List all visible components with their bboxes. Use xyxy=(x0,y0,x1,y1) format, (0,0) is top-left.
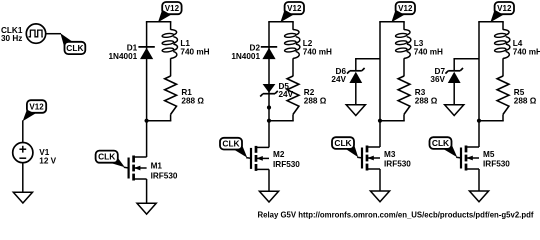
wire xyxy=(355,59,357,71)
wire xyxy=(456,156,461,159)
svg-text:IRF530: IRF530 xyxy=(483,160,510,169)
ground (M5) xyxy=(469,191,488,202)
wire xyxy=(268,120,294,122)
inductor L1 xyxy=(162,30,178,59)
svg-text:IRF530: IRF530 xyxy=(384,160,411,169)
wire xyxy=(379,120,405,122)
label M3 IRF530 xyxy=(384,150,411,169)
ground (D7) xyxy=(445,105,464,116)
zener diode D7 xyxy=(445,68,463,83)
junction xyxy=(477,119,481,123)
inductor L3 xyxy=(395,30,411,59)
ground (M3) xyxy=(370,191,389,202)
wire xyxy=(403,22,405,30)
net label V12 (M2 branch) xyxy=(285,2,304,14)
wire xyxy=(379,21,405,23)
zener diode D5 xyxy=(260,84,278,97)
net flag V12 (M2 branch) xyxy=(280,10,293,22)
voltage source CLK1 (30 Hz clock) xyxy=(26,24,45,43)
net label CLK (gate of M3) xyxy=(332,137,354,149)
resistor R1 xyxy=(165,76,177,114)
label M1 IRF530 xyxy=(151,162,178,181)
junction xyxy=(378,119,382,123)
svg-text:740 mH: 740 mH xyxy=(180,48,209,57)
wire xyxy=(46,33,61,35)
resistor R5 xyxy=(497,76,509,114)
net flag V12 (M1 branch) xyxy=(158,10,171,22)
junction xyxy=(267,105,271,109)
wire xyxy=(379,169,381,192)
wire xyxy=(268,21,294,23)
wire xyxy=(478,120,504,122)
wire xyxy=(146,120,172,122)
svg-text:1N4001: 1N4001 xyxy=(109,52,138,61)
svg-text:CLK: CLK xyxy=(432,138,449,148)
wire xyxy=(292,58,294,76)
svg-text:CLK: CLK xyxy=(222,139,239,149)
wire xyxy=(170,22,172,30)
label V1 12 V xyxy=(39,148,56,165)
svg-text:740 mH: 740 mH xyxy=(513,48,540,57)
label D2 1N4001 xyxy=(231,44,260,61)
wire xyxy=(379,22,381,121)
svg-text:Relay G5V http://omronfs.omron: Relay G5V http://omronfs.omron.com/en_US… xyxy=(258,210,534,219)
svg-text:V12: V12 xyxy=(29,103,44,112)
net label CLK (clock output) xyxy=(65,42,86,54)
svg-text:CLK: CLK xyxy=(334,138,351,148)
label M5 IRF530 xyxy=(483,150,510,169)
junction xyxy=(145,119,149,123)
wire xyxy=(246,157,251,160)
label L2 740 mH xyxy=(303,39,332,56)
resistor R2 xyxy=(287,76,299,114)
net flag CLK (clock output) xyxy=(60,33,72,48)
wire xyxy=(292,114,294,120)
n-channel MOSFET M3 xyxy=(362,146,380,171)
svg-text:IRF530: IRF530 xyxy=(273,160,300,169)
wire xyxy=(478,169,480,192)
net label V12 (M5 branch) xyxy=(495,2,514,14)
wire xyxy=(268,169,270,192)
net flag CLK (gate of M1) xyxy=(109,158,125,168)
wire xyxy=(453,83,455,105)
svg-text:V12: V12 xyxy=(497,4,512,13)
label CLK1 30 Hz xyxy=(1,26,23,43)
wire xyxy=(453,59,455,71)
net label V12 (at V1) xyxy=(27,100,46,113)
svg-text:288 Ω: 288 Ω xyxy=(415,96,438,105)
wire xyxy=(357,156,362,159)
ground (D6) xyxy=(346,105,365,116)
wire xyxy=(403,58,405,76)
label D6 24V xyxy=(331,67,346,84)
svg-text:M3: M3 xyxy=(384,150,396,159)
wire xyxy=(268,22,270,121)
wire xyxy=(146,121,148,157)
wire xyxy=(478,121,480,147)
wire xyxy=(502,22,504,30)
wire xyxy=(146,22,148,121)
svg-text:30 Hz: 30 Hz xyxy=(1,34,22,43)
svg-text:M5: M5 xyxy=(483,150,495,159)
label L3 740 mH xyxy=(414,39,443,56)
resistor R3 xyxy=(398,76,410,114)
n-channel MOSFET M5 xyxy=(461,146,479,171)
net flag CLK (gate of M5) xyxy=(443,144,457,158)
n-channel MOSFET M1 xyxy=(129,156,147,181)
diode D2 xyxy=(261,47,277,59)
svg-text:M1: M1 xyxy=(151,162,163,171)
ground (M1) xyxy=(137,203,156,214)
svg-text:V12: V12 xyxy=(165,4,180,13)
wire xyxy=(124,166,129,169)
ground (V1) xyxy=(13,192,32,203)
net flag V12 (M5 branch) xyxy=(490,10,503,22)
wire xyxy=(502,114,504,120)
wire xyxy=(292,22,294,30)
wire xyxy=(453,58,479,60)
wire xyxy=(379,121,381,147)
label M2 IRF530 xyxy=(273,150,300,169)
svg-text:1N4001: 1N4001 xyxy=(231,52,260,61)
wire xyxy=(478,22,480,121)
inductor L4 xyxy=(494,30,510,59)
diode D1 xyxy=(138,47,154,59)
net flag CLK (gate of M2) xyxy=(233,144,247,157)
label L4 740 mH xyxy=(513,39,540,56)
zener diode D6 xyxy=(347,68,365,83)
label D1 1N4001 xyxy=(109,44,138,61)
wire xyxy=(403,114,405,120)
wire xyxy=(268,121,270,148)
label R1 288 Ω xyxy=(181,88,204,105)
svg-text:740 mH: 740 mH xyxy=(414,48,443,57)
wire xyxy=(170,114,172,120)
svg-text:CLK: CLK xyxy=(66,43,83,53)
net label CLK (gate of M1) xyxy=(96,151,118,163)
wire xyxy=(146,179,148,204)
svg-text:288 Ω: 288 Ω xyxy=(514,96,537,105)
svg-text:740 mH: 740 mH xyxy=(303,48,332,57)
net label V12 (M1 branch) xyxy=(162,2,181,14)
net label CLK (gate of M5) xyxy=(430,137,452,149)
inductor L2 xyxy=(284,30,300,59)
voltage source V1 xyxy=(13,143,33,163)
svg-text:CLK: CLK xyxy=(98,152,115,162)
svg-text:24V: 24V xyxy=(331,75,346,84)
label R5 288 Ω xyxy=(514,88,537,105)
label D5 24V xyxy=(279,82,294,99)
caption text xyxy=(258,210,534,219)
label L1 740 mH xyxy=(180,39,209,56)
svg-text:IRF530: IRF530 xyxy=(151,172,178,181)
svg-text:288 Ω: 288 Ω xyxy=(304,96,327,105)
wire xyxy=(502,58,504,76)
wire xyxy=(146,21,172,23)
ground (M2) xyxy=(259,191,278,202)
label R3 288 Ω xyxy=(415,88,438,105)
junction xyxy=(267,119,271,123)
label D7 36V xyxy=(430,67,445,84)
svg-text:24V: 24V xyxy=(279,90,294,99)
svg-text:288 Ω: 288 Ω xyxy=(181,96,204,105)
net label CLK (gate of M2) xyxy=(220,138,242,150)
svg-text:M2: M2 xyxy=(273,150,285,159)
svg-text:12 V: 12 V xyxy=(39,156,56,165)
wire xyxy=(22,163,24,193)
wire xyxy=(478,21,504,23)
wire xyxy=(22,120,24,143)
svg-text:36V: 36V xyxy=(430,75,445,84)
net flag CLK (gate of M3) xyxy=(345,144,358,158)
net flag V12 (at V1) xyxy=(23,110,36,122)
svg-text:V12: V12 xyxy=(398,4,413,13)
net label V12 (M3 branch) xyxy=(396,2,415,14)
n-channel MOSFET M2 xyxy=(251,146,269,171)
wire xyxy=(355,58,380,60)
label R2 288 Ω xyxy=(304,88,327,105)
wire xyxy=(170,58,172,76)
svg-text:V12: V12 xyxy=(287,4,302,13)
net flag V12 (M3 branch) xyxy=(391,10,404,22)
wire xyxy=(355,83,357,105)
